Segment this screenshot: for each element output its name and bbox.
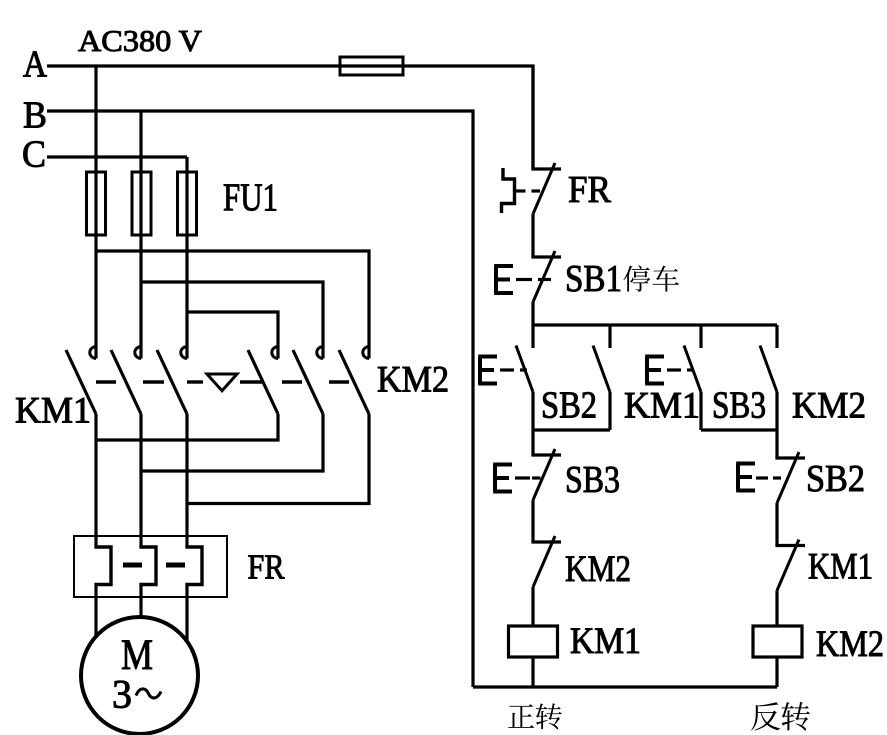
FR heater element bbox=[94, 547, 111, 585]
svg-text:C: C bbox=[22, 134, 46, 176]
fuse FU1 phase B bbox=[132, 172, 151, 235]
tilde 3-phase bbox=[136, 689, 161, 698]
wire phase B drop bbox=[139, 111, 142, 359]
label ting (stop) bbox=[623, 265, 650, 291]
svg-text:3: 3 bbox=[112, 672, 132, 717]
contact terminal hook KM1-3 bbox=[181, 347, 187, 359]
SB2 NC dash bbox=[773, 476, 781, 479]
wire FR to SB1 bbox=[531, 214, 534, 257]
wire B to KM2 contact5 top bbox=[141, 282, 323, 359]
SB1 dash bbox=[516, 278, 532, 281]
svg-text:FR: FR bbox=[568, 169, 612, 211]
svg-text:A: A bbox=[23, 44, 47, 86]
contact terminal hook KM1-1 bbox=[90, 347, 96, 359]
wire KM2-4 to motor U bbox=[96, 414, 278, 440]
wire branch bus bbox=[533, 323, 777, 326]
NC contact tick bbox=[531, 453, 561, 456]
wire KM2 aux bottom lead bbox=[775, 392, 778, 430]
contact blade KM1-1 bbox=[66, 350, 96, 414]
pushbutton actuator E bbox=[478, 357, 497, 384]
NC contact blade bbox=[777, 452, 799, 503]
NC contact blade bbox=[533, 251, 555, 302]
wire motor lead V lower bbox=[139, 585, 142, 618]
label zhuan (forward) bbox=[536, 703, 562, 729]
NC contact tick bbox=[775, 456, 805, 459]
svg-text:KM1: KM1 bbox=[570, 621, 641, 662]
svg-text:KM2: KM2 bbox=[377, 360, 449, 401]
wire bottom bus bbox=[473, 685, 777, 688]
NC contact blade bbox=[533, 536, 555, 587]
wire drop SB2 bbox=[531, 325, 534, 348]
label fan (reverse) bbox=[751, 702, 780, 730]
wire KM2 NC to KM1 coil bbox=[531, 587, 534, 626]
label che (stop) bbox=[653, 266, 679, 292]
wire motor lead U lower bbox=[94, 585, 97, 637]
wire drop SB3 bbox=[699, 325, 702, 348]
svg-text:AC380 V: AC380 V bbox=[78, 23, 203, 58]
SB3 NC dash bbox=[532, 476, 541, 479]
label zheng (forward) bbox=[508, 704, 534, 728]
FR trip dash bbox=[532, 189, 541, 192]
pushbutton actuator E bbox=[645, 357, 664, 384]
FR heater link dash bbox=[123, 563, 142, 568]
contact terminal hook KM2-6 bbox=[363, 347, 369, 359]
FR trip dash bbox=[515, 189, 526, 192]
SB3 NC dash bbox=[515, 476, 530, 479]
wire phase C line bbox=[47, 155, 187, 158]
FR trip actuator bbox=[502, 168, 515, 213]
SB2 dash bbox=[500, 368, 514, 371]
wire control rail top bbox=[531, 66, 534, 169]
fuse FU1 phase C bbox=[178, 172, 197, 235]
SB2 dash bbox=[520, 368, 527, 371]
NC contact tick bbox=[531, 167, 561, 170]
wire A to KM2 contact6 top bbox=[96, 251, 369, 359]
wire motor lead W lower bbox=[185, 585, 188, 642]
motor M circle bbox=[81, 617, 198, 734]
wire SB1 to branch bus bbox=[531, 302, 534, 325]
wire to SB2 NC bbox=[775, 430, 778, 458]
FR heater link dash bbox=[166, 563, 185, 568]
contact terminal hook KM2-5 bbox=[317, 347, 323, 359]
FR heater element bbox=[185, 547, 202, 585]
SB3 dash bbox=[667, 368, 681, 371]
wire SB2/KM1 parallel bus bbox=[533, 428, 610, 431]
SB1 dash bbox=[538, 278, 551, 281]
wire drop KM1 aux bbox=[608, 325, 611, 348]
linkage triangle bbox=[207, 374, 237, 391]
svg-text:SB3: SB3 bbox=[565, 459, 620, 501]
NO contact blade KM2 aux bbox=[760, 346, 777, 393]
wire C to KM2 contact4 top bbox=[187, 312, 278, 359]
wire KM1 NC to KM2 coil bbox=[775, 591, 778, 627]
wire motor lead V upper bbox=[139, 414, 142, 547]
wire to SB3 NC bbox=[531, 430, 534, 455]
linkage dash bbox=[240, 380, 262, 383]
pushbutton actuator E bbox=[736, 464, 755, 491]
NC contact tick bbox=[531, 255, 561, 258]
contact terminal hook KM1-2 bbox=[135, 347, 141, 359]
NC contact blade bbox=[533, 449, 555, 500]
NC contact blade bbox=[533, 163, 555, 214]
linkage dash bbox=[96, 380, 116, 383]
wire KM2-6 to motor W bbox=[187, 414, 369, 504]
svg-text:SB1: SB1 bbox=[565, 258, 622, 300]
pushbutton actuator E bbox=[493, 465, 512, 492]
wire motor lead U upper bbox=[94, 414, 97, 547]
contact blade KM2-5 bbox=[293, 350, 323, 414]
svg-text:FR: FR bbox=[248, 548, 286, 587]
wire SB3 bottom lead bbox=[699, 392, 702, 430]
contact blade KM1-2 bbox=[111, 350, 141, 414]
NO contact blade SB2 bbox=[516, 346, 533, 393]
wire phase A drop bbox=[94, 66, 97, 359]
contact terminal hook KM2-4 bbox=[272, 347, 278, 359]
wire SB2 bottom lead bbox=[531, 392, 534, 430]
svg-text:SB2: SB2 bbox=[541, 385, 597, 427]
thermal relay FR box bbox=[74, 536, 227, 597]
linkage dash bbox=[143, 380, 164, 383]
fuse FU1 phase A bbox=[87, 172, 106, 235]
label zhuan (reverse) bbox=[781, 702, 809, 731]
wire SB3/KM2 parallel bus bbox=[701, 428, 777, 431]
svg-text:SB3: SB3 bbox=[712, 385, 766, 427]
wire SB3 to KM2 NC bbox=[531, 500, 534, 542]
pushbutton actuator E bbox=[494, 266, 513, 293]
svg-text:KM1: KM1 bbox=[624, 386, 700, 427]
svg-text:KM1: KM1 bbox=[15, 391, 91, 432]
svg-text:B: B bbox=[23, 95, 47, 137]
SB3 dash bbox=[687, 368, 694, 371]
wire drop KM2 aux bbox=[775, 325, 778, 348]
linkage dash bbox=[187, 380, 203, 383]
wire phase C drop bbox=[185, 157, 188, 359]
coil KM2 bbox=[753, 626, 802, 657]
NC contact tick bbox=[531, 540, 561, 543]
svg-text:KM2: KM2 bbox=[792, 386, 866, 427]
contact blade KM2-6 bbox=[339, 350, 369, 414]
SB2 NC dash bbox=[756, 476, 768, 479]
NO contact blade SB3 bbox=[684, 346, 701, 393]
wire KM1 aux bottom lead bbox=[608, 392, 611, 430]
NO contact blade KM1 aux bbox=[593, 346, 610, 393]
NC contact tick bbox=[775, 544, 805, 547]
contact blade KM2-4 bbox=[248, 350, 278, 414]
coil KM1 bbox=[509, 626, 558, 657]
svg-text:KM1: KM1 bbox=[808, 547, 873, 588]
svg-text:SB2: SB2 bbox=[806, 458, 865, 500]
wire KM1 coil to bottom bus bbox=[531, 657, 534, 687]
wire phase A line to control rail bbox=[47, 66, 533, 169]
linkage dash bbox=[329, 380, 349, 383]
wire phase B line to control left rail bbox=[47, 111, 473, 687]
fuse FU2 on line A bbox=[340, 57, 403, 75]
wire motor lead W upper bbox=[185, 414, 188, 547]
NC contact blade bbox=[777, 540, 799, 591]
svg-text:KM2: KM2 bbox=[816, 624, 884, 665]
wire KM2 coil to bottom bus bbox=[775, 657, 778, 687]
linkage dash bbox=[282, 380, 302, 383]
svg-text:FU1: FU1 bbox=[223, 176, 278, 219]
FR heater element bbox=[139, 547, 156, 585]
contact blade KM1-3 bbox=[157, 350, 187, 414]
svg-text:KM2: KM2 bbox=[565, 549, 631, 590]
wire SB2 to KM1 NC bbox=[775, 503, 778, 546]
wire KM2-5 to motor V bbox=[141, 414, 323, 471]
